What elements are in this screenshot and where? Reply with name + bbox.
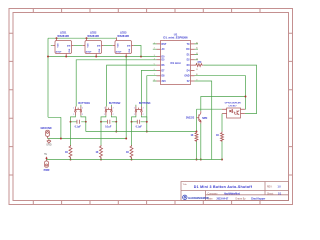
resistor R5 opto pulldown [216, 114, 224, 161]
svg-text:GND: GND [46, 143, 52, 146]
svg-text:5: 5 [154, 64, 155, 66]
svg-text:WS2812B: WS2812B [117, 34, 129, 38]
wire button signal bus [86, 131, 197, 133]
svg-text:2023-04-07: 2023-04-07 [217, 198, 229, 201]
wire bottom bus [47, 159, 223, 161]
svg-text:WS2812B: WS2812B [87, 34, 99, 38]
svg-text:DOUT: DOUT [116, 51, 122, 53]
svg-text:D1_mini_ESP8266: D1_mini_ESP8266 [163, 36, 188, 40]
svg-text:5V: 5V [44, 153, 47, 156]
svg-text:1: 1 [104, 114, 105, 116]
svg-text:1K: 1K [126, 151, 129, 154]
svg-text:0.1uF: 0.1uF [105, 125, 112, 128]
svg-text:VDD: VDD [118, 43, 120, 48]
svg-text:1: 1 [73, 108, 74, 110]
svg-text:0.1uF: 0.1uF [136, 125, 143, 128]
svg-text:PWR: PWR [44, 169, 50, 172]
title block [181, 182, 289, 201]
wire D3 to optocoupler right top [203, 65, 256, 114]
svg-text:14: 14 [196, 53, 198, 55]
wire LED1-LED2 link [74, 45, 83, 47]
button cell 3 [126, 102, 151, 161]
svg-text:VDD: VDD [58, 43, 60, 48]
svg-text:Drawn By:: Drawn By: [236, 198, 247, 201]
svg-text:8: 8 [154, 80, 155, 82]
wire D8 line down to signal bus [147, 76, 157, 132]
svg-text:6: 6 [154, 69, 155, 71]
ground terminal J1 [40, 127, 51, 138]
svg-text:VSS: VSS [129, 48, 131, 53]
svg-text:LTV-817: LTV-817 [229, 105, 238, 107]
svg-text:1: 1 [134, 114, 135, 116]
svg-text:D1 Mini 3 Button Auto-Shutoff: D1 Mini 3 Button Auto-Shutoff [194, 185, 253, 189]
resistor R4 base pulldown [190, 132, 198, 161]
LED2 WS2812B [83, 31, 104, 57]
svg-text:Company:: Company: [208, 193, 219, 195]
wire GND to opto right bottom [195, 76, 246, 110]
wire LED3 DIN drop [134, 46, 141, 57]
svg-text:15: 15 [196, 48, 198, 50]
svg-text:0.1uF: 0.1uF [75, 125, 82, 128]
wire VDD top bus [48, 37, 117, 39]
svg-text:WS2812B: WS2812B [57, 34, 69, 38]
IC U1 D1_mini_ESP8266 [157, 32, 195, 84]
svg-text:VSS: VSS [99, 48, 101, 53]
LED1 WS2812B [51, 31, 74, 57]
svg-text:REV:: REV: [267, 186, 273, 188]
svg-text:1K: 1K [95, 151, 98, 154]
wire D6 line to button2 [107, 65, 157, 106]
svg-text:Chad Kapper: Chad Kapper [251, 199, 265, 201]
svg-text:GND: GND [184, 76, 189, 78]
svg-text:DIN: DIN [127, 45, 131, 47]
wire D7 line to button3 [141, 70, 156, 106]
svg-text:DIN: DIN [67, 45, 71, 47]
svg-text:1: 1 [73, 114, 74, 116]
svg-text:11: 11 [196, 69, 198, 71]
svg-text:1K: 1K [190, 134, 193, 137]
svg-text:BUTTON1: BUTTON1 [78, 102, 90, 105]
svg-text:1K: 1K [65, 151, 68, 154]
svg-text:2N2222: 2N2222 [186, 116, 195, 119]
svg-text:Sheet:: Sheet: [267, 192, 274, 195]
svg-text:4: 4 [154, 58, 155, 60]
svg-text:GROUND: GROUND [40, 127, 51, 130]
svg-text:BUTTON3: BUTTON3 [139, 102, 151, 105]
svg-text:2: 2 [113, 108, 114, 110]
wire ground line [48, 138, 127, 140]
wire left vertical rail [48, 38, 61, 138]
sheet border frame [9, 9, 293, 205]
resistor R6 on D3 [195, 61, 204, 67]
svg-text:DIN: DIN [97, 45, 101, 47]
svg-text:2: 2 [143, 114, 144, 116]
svg-text:10: 10 [196, 74, 198, 76]
wire emitter down to bus [200, 124, 202, 160]
svg-text:1: 1 [104, 108, 105, 110]
button cell 2 [95, 102, 121, 161]
svg-text:DOUT: DOUT [86, 51, 92, 53]
pin numbers U1 [154, 42, 198, 81]
svg-text:HackMakeMod: HackMakeMod [224, 193, 241, 195]
logo [183, 195, 187, 199]
svg-text:VSS: VSS [69, 48, 71, 53]
LED3 WS2812B [113, 31, 134, 57]
power terminal J2 5V [44, 153, 50, 172]
svg-text:12: 12 [196, 64, 198, 66]
svg-text:3: 3 [154, 55, 155, 57]
ground GND symbol [46, 139, 52, 147]
svg-text:7: 7 [154, 74, 155, 76]
wire LED3 VSS drop to ground line [125, 57, 127, 139]
optocoupler U2 PC817 [222, 103, 245, 118]
svg-text:3V3: 3V3 [162, 81, 167, 83]
svg-text:TX: TX [187, 44, 190, 46]
wire LED2-LED3 link [104, 45, 113, 47]
wire H_A LED bottom bus to D0 [48, 56, 157, 58]
svg-text:HACKMAKEMOD: HACKMAKEMOD [188, 196, 209, 200]
wire 5V down to bottom bus [195, 81, 212, 160]
node junction top bus [56, 37, 58, 39]
svg-text:D1 mini: D1 mini [170, 61, 180, 65]
svg-text:2: 2 [113, 114, 114, 116]
svg-text:1: 1 [134, 108, 135, 110]
wire collector up and right [201, 97, 246, 112]
svg-text:OPTOCOUPLER: OPTOCOUPLER [225, 103, 242, 105]
svg-text:9: 9 [196, 80, 197, 82]
transistor Q1 2N2222 [186, 109, 208, 132]
wire TX RX D1 D2 stubs [195, 44, 199, 60]
svg-text:RST: RST [162, 43, 167, 46]
wire D5 line to button1 [76, 60, 156, 107]
svg-text:2: 2 [82, 108, 83, 110]
svg-text:2: 2 [154, 48, 155, 50]
svg-text:1K: 1K [216, 134, 219, 137]
svg-text:2: 2 [143, 108, 144, 110]
svg-text:5V: 5V [187, 81, 190, 83]
svg-text:13: 13 [196, 58, 198, 60]
svg-text:2: 2 [82, 114, 83, 116]
wire collector branch to opto left top [197, 108, 223, 110]
svg-text:Title:: Title: [183, 183, 188, 186]
svg-text:BUTTON2: BUTTON2 [109, 102, 121, 105]
svg-text:RX: RX [186, 49, 190, 51]
svg-text:1: 1 [154, 42, 155, 44]
svg-text:VDD: VDD [88, 43, 90, 48]
pin numbers buttons [73, 108, 143, 117]
svg-text:NPN: NPN [202, 117, 207, 120]
wire RST stub [153, 44, 157, 81]
svg-text:16: 16 [196, 42, 198, 44]
button cell 1 [65, 102, 91, 161]
svg-text:DOUT: DOUT [56, 51, 62, 53]
